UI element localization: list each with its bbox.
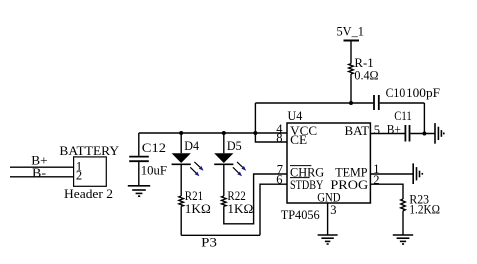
svg-text:6: 6 — [276, 172, 282, 186]
wire D5 to R22 — [223, 164, 225, 196]
wire BAT to C11 — [370, 133, 404, 135]
LED D4 — [172, 133, 204, 176]
wire TEMP pin to ground — [370, 173, 413, 175]
capacitor C11 — [394, 108, 411, 142]
svg-text:10uF: 10uF — [141, 163, 167, 178]
ground right of C11 — [435, 123, 444, 144]
resistor R22 — [222, 188, 254, 216]
svg-text:100pF: 100pF — [406, 85, 440, 100]
wire R22 down and to CHRG pin — [224, 174, 287, 224]
svg-text:B+: B+ — [387, 121, 401, 136]
svg-text:8: 8 — [276, 131, 282, 145]
wire B+ into header pin 1 — [10, 166, 74, 168]
resistor R21 — [179, 188, 211, 216]
svg-text:D5: D5 — [227, 138, 242, 153]
svg-text:B-: B- — [32, 165, 46, 180]
capacitor C12 — [129, 133, 167, 185]
svg-text:BAT: BAT — [345, 123, 370, 138]
ground at TEMP — [413, 163, 422, 184]
svg-text:1KΩ: 1KΩ — [185, 201, 211, 216]
capacitor C10 — [374, 85, 440, 110]
wire B- into header pin 2 — [10, 176, 74, 178]
svg-text:U4: U4 — [288, 108, 303, 123]
junction dot at R-1 bottom — [349, 101, 353, 105]
wire corner down to BAT net — [423, 103, 425, 134]
svg-text:1KΩ: 1KΩ — [227, 201, 253, 216]
power symbol 5V_1 — [337, 23, 364, 40]
wire up to STDBY pin — [260, 184, 287, 235]
ground below R23 — [393, 235, 413, 244]
IC U4 TP4056 — [281, 108, 371, 222]
junction dot VCC rail at 5V drop — [253, 131, 257, 135]
svg-text:C11: C11 — [394, 108, 411, 123]
wire CE from rail — [255, 133, 287, 142]
wire C11 to ground — [410, 133, 435, 135]
wire R-1 bottom — [350, 74, 352, 103]
svg-text:BATTERY: BATTERY — [59, 143, 119, 158]
wire down to VCC rail — [254, 103, 256, 133]
resistor R-1 — [349, 55, 379, 83]
svg-text:3: 3 — [330, 203, 336, 217]
junction dot BAT net — [422, 132, 426, 136]
LED D5 — [214, 133, 246, 176]
svg-text:GND: GND — [317, 190, 340, 205]
junction dot D5 on rail — [222, 131, 226, 135]
wire P3 bottom horizontal — [181, 234, 260, 236]
svg-text:0.4Ω: 0.4Ω — [354, 68, 378, 83]
wire R21 to bottom net — [180, 206, 182, 235]
connector BATTERY Header 2 — [59, 143, 119, 201]
svg-text:C12: C12 — [142, 140, 166, 155]
svg-text:C10: C10 — [386, 85, 406, 100]
resistor R23 — [401, 192, 440, 217]
junction dot D4 on rail — [179, 131, 183, 135]
ground below C12 — [128, 186, 150, 196]
wire VCC rail — [139, 132, 287, 134]
svg-text:TP4056: TP4056 — [281, 207, 320, 222]
wire C10 to corner — [380, 102, 425, 104]
wire PROG to R23 — [370, 184, 403, 199]
wire 5V horizontal to C10 — [255, 102, 373, 104]
svg-text:CE: CE — [290, 132, 307, 147]
svg-text:Header 2: Header 2 — [64, 186, 113, 201]
wire 5V stub — [350, 41, 352, 64]
svg-text:2: 2 — [76, 168, 82, 182]
svg-text:1.2KΩ: 1.2KΩ — [409, 201, 440, 216]
wire GND pin 3 down — [327, 203, 329, 235]
svg-text:D4: D4 — [184, 138, 199, 153]
svg-text:5: 5 — [374, 123, 380, 137]
wire D4 to R21 — [180, 164, 182, 196]
ground below IC — [318, 235, 338, 244]
svg-text:5V_1: 5V_1 — [337, 23, 364, 38]
svg-text:P3: P3 — [201, 234, 217, 249]
wire R23 to ground — [402, 211, 404, 235]
